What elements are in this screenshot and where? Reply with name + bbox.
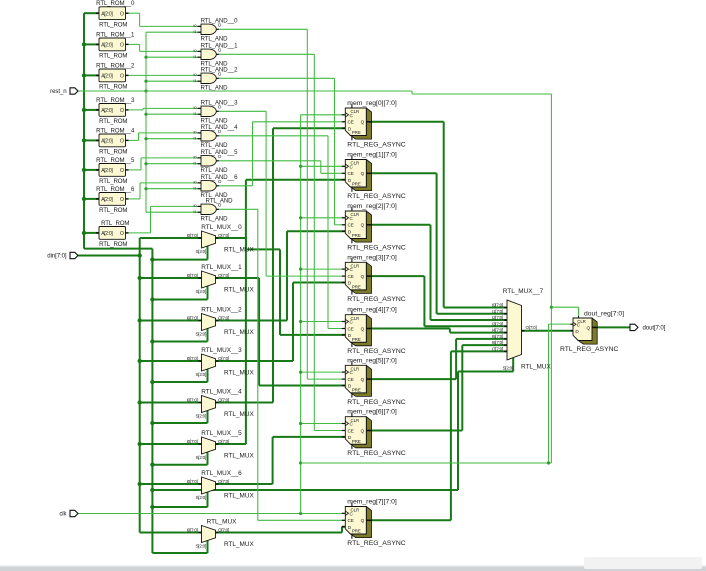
svg-text:A[2:0]: A[2:0] (101, 43, 113, 49)
svg-text:I4[7:0]: I4[7:0] (492, 328, 503, 333)
svg-text:S[2:0]: S[2:0] (195, 495, 206, 500)
svg-text:RTL_MUX: RTL_MUX (521, 364, 551, 371)
svg-text:RTL_REG_ASYNC: RTL_REG_ASYNC (347, 450, 406, 457)
svg-text:RTL_ROM__1: RTL_ROM__1 (96, 31, 135, 38)
svg-text:I0[7:0]: I0[7:0] (187, 397, 198, 402)
svg-text:O[7:0]: O[7:0] (218, 356, 229, 361)
svg-text:RTL_MUX__6: RTL_MUX__6 (201, 470, 242, 477)
svg-text:RTL_MUX: RTL_MUX (224, 369, 254, 376)
svg-text:O: O (120, 139, 124, 145)
svg-text:I7[7:0]: I7[7:0] (492, 346, 503, 351)
svg-text:RTL_ROM__5: RTL_ROM__5 (96, 157, 135, 164)
svg-text:RTL_REG_ASYNC: RTL_REG_ASYNC (347, 142, 406, 149)
svg-text:RTL_ROM__4: RTL_ROM__4 (96, 127, 135, 134)
svg-text:CE: CE (348, 377, 354, 382)
svg-text:RTL_ROM__0: RTL_ROM__0 (96, 0, 135, 7)
svg-text:RTL_MUX__3: RTL_MUX__3 (201, 347, 242, 354)
svg-text:I3[7:0]: I3[7:0] (492, 321, 503, 326)
svg-text:mem_reg[2][7:0]: mem_reg[2][7:0] (347, 203, 397, 210)
svg-text:PRE: PRE (352, 285, 361, 290)
svg-text:RTL_MUX__4: RTL_MUX__4 (201, 388, 242, 395)
svg-text:RTL_REG_ASYNC: RTL_REG_ASYNC (347, 348, 406, 355)
svg-text:RTL_MUX__0: RTL_MUX__0 (201, 224, 242, 231)
svg-text:S[2:0]: S[2:0] (195, 413, 206, 418)
svg-text:RTL_AND__3: RTL_AND__3 (201, 100, 239, 107)
svg-text:I0[7:0]: I0[7:0] (187, 439, 198, 444)
svg-text:RTL_ROM: RTL_ROM (99, 53, 127, 60)
svg-text:dout_reg[7:0]: dout_reg[7:0] (584, 311, 624, 318)
svg-text:Q: Q (361, 120, 365, 125)
svg-text:RTL_ROM__3: RTL_ROM__3 (96, 97, 135, 104)
svg-text:I0[7:0]: I0[7:0] (187, 356, 198, 361)
svg-text:PRE: PRE (352, 233, 361, 238)
svg-text:I0[7:0]: I0[7:0] (492, 303, 503, 308)
svg-text:I0[7:0]: I0[7:0] (187, 315, 198, 320)
svg-text:RTL_AND: RTL_AND (201, 85, 229, 92)
svg-text:RTL_REG_ASYNC: RTL_REG_ASYNC (347, 399, 406, 406)
svg-text:A[2:0]: A[2:0] (101, 74, 113, 80)
svg-text:RTL_MUX: RTL_MUX (224, 452, 254, 459)
svg-text:O: O (120, 168, 124, 174)
svg-text:RTL_AND__1: RTL_AND__1 (201, 43, 239, 50)
svg-text:RTL_REG_ASYNC: RTL_REG_ASYNC (347, 193, 406, 200)
svg-text:mem_reg[6][7:0]: mem_reg[6][7:0] (347, 409, 397, 416)
svg-text:RTL_MUX: RTL_MUX (224, 492, 254, 499)
svg-text:RTL_MUX: RTL_MUX (224, 246, 254, 253)
svg-text:Q: Q (361, 377, 365, 382)
svg-text:CE: CE (348, 326, 354, 331)
svg-text:Q: Q (361, 171, 365, 176)
svg-text:RTL_AND: RTL_AND (206, 198, 234, 205)
svg-text:dout[7:0]: dout[7:0] (643, 325, 666, 332)
svg-text:S[2:0]: S[2:0] (195, 455, 206, 460)
svg-text:I0[7:0]: I0[7:0] (187, 479, 198, 484)
svg-text:CE: CE (348, 428, 354, 433)
svg-text:O: O (120, 108, 124, 114)
svg-text:A[2:0]: A[2:0] (101, 168, 113, 174)
svg-text:RTL_AND__6: RTL_AND__6 (201, 174, 239, 181)
svg-text:S[2:0]: S[2:0] (195, 249, 206, 254)
svg-text:din[7:0]: din[7:0] (47, 253, 67, 260)
svg-text:RTL_MUX: RTL_MUX (224, 329, 254, 336)
svg-text:RTL_ROM: RTL_ROM (99, 178, 127, 185)
svg-text:CE: CE (348, 171, 354, 176)
svg-text:RTL_AND: RTL_AND (201, 216, 229, 223)
svg-text:RTL_MUX: RTL_MUX (224, 286, 254, 293)
svg-text:S[2:0]: S[2:0] (502, 366, 513, 371)
svg-text:Q: Q (361, 223, 365, 228)
svg-text:mem_reg[0][7:0]: mem_reg[0][7:0] (347, 100, 397, 107)
svg-text:RTL_MUX: RTL_MUX (224, 541, 254, 548)
svg-text:A[2:0]: A[2:0] (101, 231, 113, 237)
svg-text:mem_reg[4][7:0]: mem_reg[4][7:0] (347, 307, 397, 314)
svg-text:PRE: PRE (352, 130, 361, 135)
svg-text:I2[7:0]: I2[7:0] (492, 315, 503, 320)
svg-text:Q: Q (587, 325, 591, 330)
svg-text:RTL_ROM: RTL_ROM (99, 241, 127, 248)
svg-text:I0[7:0]: I0[7:0] (187, 273, 198, 278)
svg-text:Q: Q (361, 326, 365, 331)
svg-text:PRE: PRE (352, 182, 361, 187)
svg-text:RTL_ROM: RTL_ROM (99, 207, 127, 214)
svg-text:I0[7:0]: I0[7:0] (187, 233, 198, 238)
svg-text:rest_n: rest_n (50, 88, 66, 95)
svg-text:O: O (120, 11, 124, 17)
svg-text:RTL_MUX__7: RTL_MUX__7 (503, 288, 544, 295)
svg-text:RTL_MUX: RTL_MUX (224, 411, 254, 418)
svg-text:CE: CE (348, 274, 354, 279)
svg-text:clk: clk (59, 511, 67, 518)
svg-text:RTL_REG_ASYNC: RTL_REG_ASYNC (560, 346, 619, 353)
svg-text:RTL_REG_ASYNC: RTL_REG_ASYNC (347, 296, 406, 303)
svg-text:RTL_AND__0: RTL_AND__0 (201, 18, 239, 25)
svg-text:Q: Q (361, 428, 365, 433)
svg-text:O: O (120, 197, 124, 203)
svg-text:mem_reg[7][7:0]: mem_reg[7][7:0] (347, 499, 397, 506)
svg-text:RTL_ROM: RTL_ROM (99, 21, 127, 28)
svg-text:PRE: PRE (352, 388, 361, 393)
svg-text:S[2:0]: S[2:0] (195, 543, 206, 548)
svg-text:PRE: PRE (352, 439, 361, 444)
svg-text:mem_reg[3][7:0]: mem_reg[3][7:0] (347, 254, 397, 261)
svg-text:CE: CE (348, 223, 354, 228)
svg-text:Q: Q (361, 274, 365, 279)
svg-text:RTL_REG_ASYNC: RTL_REG_ASYNC (347, 245, 406, 252)
svg-text:O[7:0]: O[7:0] (218, 315, 229, 320)
svg-text:A[2:0]: A[2:0] (101, 108, 113, 114)
svg-text:O[7:0]: O[7:0] (218, 233, 229, 238)
svg-text:I5[7:0]: I5[7:0] (492, 334, 503, 339)
svg-text:A[2:0]: A[2:0] (101, 197, 113, 203)
svg-text:I6[7:0]: I6[7:0] (492, 340, 503, 345)
svg-text:CE: CE (348, 518, 354, 523)
svg-text:RTL_ROM__2: RTL_ROM__2 (96, 62, 135, 69)
svg-text:RTL_ROM: RTL_ROM (101, 220, 129, 227)
svg-text:RTL_ROM__6: RTL_ROM__6 (96, 186, 135, 193)
svg-text:RTL_ROM: RTL_ROM (99, 84, 127, 91)
svg-text:RTL_MUX: RTL_MUX (207, 518, 237, 525)
svg-text:S[2:0]: S[2:0] (195, 331, 206, 336)
svg-text:RTL_AND__4: RTL_AND__4 (201, 124, 239, 131)
svg-text:I1[7:0]: I1[7:0] (492, 309, 503, 314)
svg-text:A[2:0]: A[2:0] (101, 139, 113, 145)
svg-text:O[7:0]: O[7:0] (218, 439, 229, 444)
svg-text:RTL_AND__2: RTL_AND__2 (201, 67, 239, 74)
svg-text:O[7:0]: O[7:0] (218, 273, 229, 278)
svg-text:Q: Q (361, 518, 365, 523)
svg-text:S[2:0]: S[2:0] (195, 372, 206, 377)
svg-text:I0[7:0]: I0[7:0] (187, 527, 198, 532)
svg-text:O[7:0]: O[7:0] (218, 479, 229, 484)
svg-text:mem_reg[1][7:0]: mem_reg[1][7:0] (347, 152, 397, 159)
svg-text:RTL_ROM: RTL_ROM (99, 118, 127, 125)
svg-text:RTL_REG_ASYNC: RTL_REG_ASYNC (347, 540, 406, 547)
svg-text:RTL_MUX__1: RTL_MUX__1 (201, 264, 242, 271)
svg-text:RTL_ROM: RTL_ROM (99, 149, 127, 156)
svg-text:S[2:0]: S[2:0] (195, 289, 206, 294)
svg-text:PRE: PRE (352, 529, 361, 534)
svg-text:O[7:0]: O[7:0] (526, 325, 537, 330)
svg-text:O: O (120, 74, 124, 80)
svg-text:O: O (120, 43, 124, 49)
svg-text:A[2:0]: A[2:0] (101, 11, 113, 17)
svg-text:mem_reg[5][7:0]: mem_reg[5][7:0] (347, 357, 397, 364)
svg-text:O[7:0]: O[7:0] (218, 397, 229, 402)
svg-text:O[7:0]: O[7:0] (218, 527, 229, 532)
svg-text:CE: CE (348, 120, 354, 125)
svg-text:RTL_AND__5: RTL_AND__5 (201, 149, 239, 156)
svg-text:PRE: PRE (352, 337, 361, 342)
svg-text:O: O (120, 231, 124, 237)
svg-text:RTL_MUX__5: RTL_MUX__5 (201, 430, 242, 437)
svg-text:RTL_MUX__2: RTL_MUX__2 (201, 306, 242, 313)
